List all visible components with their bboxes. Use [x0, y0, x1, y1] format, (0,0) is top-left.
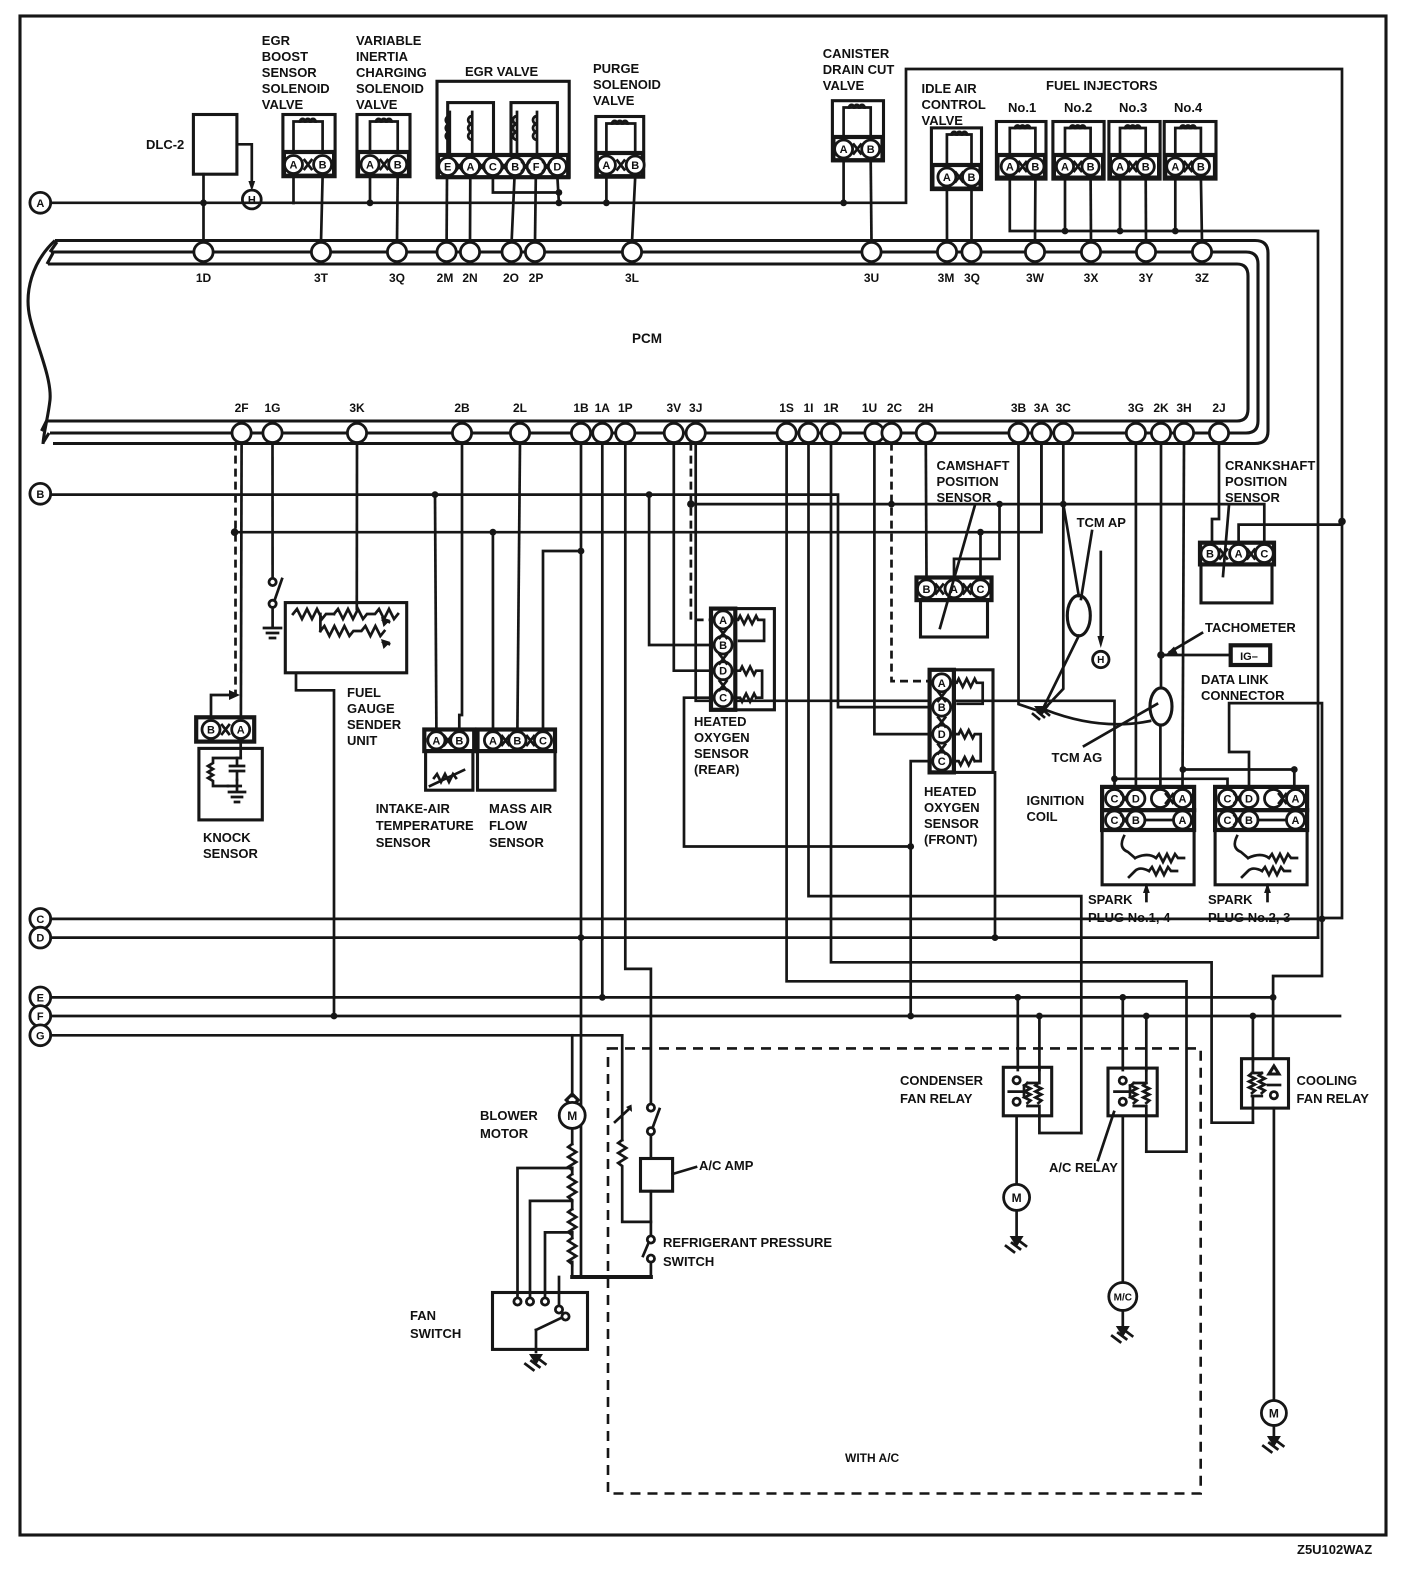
svg-text:A: A — [432, 735, 440, 747]
bus B wire to front oxygen sensor — [51, 491, 930, 707]
mass air flow sensor connector — [478, 730, 556, 752]
svg-text:B: B — [631, 160, 639, 172]
svg-text:2H: 2H — [918, 401, 933, 415]
svg-text:3Z: 3Z — [1195, 271, 1209, 285]
svg-text:B: B — [1197, 162, 1205, 174]
svg-text:FUEL: FUEL — [347, 685, 381, 700]
svg-text:3Q: 3Q — [389, 271, 405, 285]
node G circled letter left edge — [30, 1025, 51, 1046]
svg-text:A: A — [719, 615, 727, 627]
ground below 1G switch — [264, 607, 281, 638]
fan switch box — [493, 1293, 588, 1353]
node A circled letter left edge — [30, 192, 51, 213]
svg-text:FAN RELAY: FAN RELAY — [1297, 1091, 1370, 1106]
IG tachometer terminal box — [1231, 645, 1271, 665]
condenser fan motor M — [1004, 1184, 1030, 1210]
svg-text:M: M — [1269, 1407, 1279, 1421]
svg-text:3T: 3T — [314, 271, 329, 285]
svg-text:A: A — [1116, 162, 1124, 174]
bus C wire — [51, 916, 1326, 923]
svg-text:A: A — [1061, 162, 1069, 174]
purge solenoid valve — [596, 117, 644, 178]
svg-text:(REAR): (REAR) — [694, 762, 740, 777]
canister drain cut valve — [832, 101, 883, 161]
wire fuel gauge output to bus F — [296, 673, 334, 1016]
node F circled letter left edge — [30, 1006, 51, 1027]
svg-text:2O: 2O — [503, 271, 519, 285]
svg-text:CONDENSER: CONDENSER — [900, 1073, 984, 1088]
svg-text:HEATED: HEATED — [694, 714, 746, 729]
svg-text:SPARK: SPARK — [1208, 892, 1253, 907]
FAN SWITCH label — [410, 1308, 461, 1341]
wire EGR D to bus A with junctions — [556, 177, 563, 206]
svg-text:2J: 2J — [1212, 401, 1225, 415]
svg-text:No.3: No.3 — [1119, 100, 1147, 115]
svg-text:A: A — [1292, 794, 1300, 806]
svg-text:D: D — [1245, 794, 1253, 806]
svg-text:2P: 2P — [529, 271, 544, 285]
knock sensor connector — [196, 717, 254, 741]
wire F to AC relay coil — [1145, 1016, 1148, 1070]
svg-text:C: C — [1260, 549, 1268, 561]
wire MAF C joining 1B — [543, 548, 584, 730]
HEATED OXYGEN SENSOR REAR label — [694, 714, 750, 777]
CRANKSHAFT POSITION SENSOR label with leader — [1223, 458, 1315, 576]
svg-text:FUEL INJECTORS: FUEL INJECTORS — [1046, 78, 1158, 93]
svg-text:3H: 3H — [1176, 401, 1191, 415]
ignition coil left body windings — [1102, 830, 1194, 885]
svg-text:A: A — [1235, 549, 1243, 561]
A/C RELAY label with leader — [1049, 1112, 1118, 1175]
svg-text:C: C — [489, 162, 497, 174]
ignition coil right connector row 2 — [1215, 810, 1307, 830]
svg-text:3Y: 3Y — [1139, 271, 1154, 285]
svg-text:2B: 2B — [454, 401, 470, 415]
svg-text:E: E — [444, 162, 451, 174]
KNOCK SENSOR label — [203, 830, 259, 861]
svg-text:B: B — [1245, 815, 1253, 827]
svg-text:1A: 1A — [595, 401, 611, 415]
FUEL GAUGE SENDER UNIT label — [347, 685, 402, 748]
condenser fan relay — [1003, 1067, 1051, 1116]
svg-text:B: B — [938, 702, 946, 714]
heated oxygen sensor rear body with heater and cell — [732, 609, 774, 710]
injector No.1 label — [1008, 100, 1036, 115]
svg-text:2N: 2N — [462, 271, 477, 285]
bus A wire across top and wrap around injectors down right side — [51, 69, 1346, 918]
resistor tap 1 to fan switch — [518, 1168, 573, 1297]
svg-text:C: C — [539, 735, 547, 747]
svg-text:3Q: 3Q — [964, 271, 980, 285]
wire injector No.1 B to pin 3W — [1034, 178, 1037, 242]
wire knock sensor B shield loop — [211, 695, 232, 717]
svg-text:MASS AIR: MASS AIR — [489, 801, 553, 816]
PCM torn left edge — [28, 241, 55, 445]
svg-text:M: M — [1012, 1191, 1022, 1205]
svg-text:VARIABLE: VARIABLE — [356, 33, 422, 48]
SPARK PLUG No.2 3 label — [1208, 892, 1290, 925]
ground below condenser fan motor — [1006, 1210, 1026, 1252]
fuel injector No.2 — [1053, 122, 1104, 180]
svg-text:CAMSHAFT: CAMSHAFT — [937, 458, 1010, 473]
svg-text:IGNITION: IGNITION — [1027, 793, 1085, 808]
svg-text:SENSOR: SENSOR — [1225, 490, 1281, 505]
svg-text:C: C — [1111, 794, 1119, 806]
wire 3C to signal return and TCM ground — [1041, 443, 1063, 712]
wire F to cooling fan relay coil — [1252, 1016, 1255, 1061]
wire 1S staircase to AC relay coil — [787, 443, 1187, 1152]
COOLING FAN RELAY label — [1297, 1073, 1370, 1106]
svg-text:A: A — [840, 144, 848, 156]
CAMSHAFT POSITION SENSOR label with leader — [937, 458, 1010, 628]
EGR valve assembly — [437, 81, 569, 177]
svg-text:PLUG No.1, 4: PLUG No.1, 4 — [1088, 910, 1171, 925]
svg-text:SENSOR: SENSOR — [262, 65, 318, 80]
svg-text:1I: 1I — [803, 401, 813, 415]
ignition coil right connector row 1 — [1215, 787, 1307, 810]
wire injector No.3 A drop — [1119, 178, 1122, 231]
heated oxygen sensor rear connector — [711, 609, 735, 710]
svg-text:TACHOMETER: TACHOMETER — [1205, 620, 1296, 635]
wire 1I staircase to condenser relay coil loop — [809, 443, 1082, 1133]
svg-text:EGR VALVE: EGR VALVE — [465, 64, 539, 79]
svg-text:1D: 1D — [196, 271, 212, 285]
svg-text:VALVE: VALVE — [922, 113, 964, 128]
svg-text:DRAIN CUT: DRAIN CUT — [823, 62, 895, 77]
svg-text:A: A — [1292, 815, 1300, 827]
svg-text:A: A — [489, 735, 497, 747]
arrow from TCM AP area to circled H — [1097, 552, 1104, 648]
wire crankshaft B from 2J — [1212, 443, 1219, 543]
svg-text:3G: 3G — [1128, 401, 1144, 415]
wire 3V to rear oxygen sensor D — [674, 443, 711, 671]
injector No.2 label — [1064, 100, 1092, 115]
svg-text:REFRIGERANT PRESSURE: REFRIGERANT PRESSURE — [663, 1235, 832, 1250]
wire 3H to ignition coil left A with branch to right coil A — [1180, 443, 1298, 787]
ignition coil left connector row 1 — [1102, 787, 1194, 810]
resistor tap 3 to fan switch — [545, 1232, 572, 1297]
svg-text:B: B — [1132, 815, 1140, 827]
svg-text:CHARGING: CHARGING — [356, 65, 427, 80]
wire data link connector loop to right coil D — [1229, 703, 1322, 1059]
svg-text:3W: 3W — [1026, 271, 1045, 285]
svg-text:C: C — [938, 756, 946, 768]
variable inertia charging solenoid valve — [357, 115, 410, 177]
svg-text:WITH A/C: WITH A/C — [845, 1451, 900, 1465]
svg-text:PLUG No.2, 3: PLUG No.2, 3 — [1208, 910, 1290, 925]
wire resistor chain bottom to thick feed line — [571, 1262, 574, 1277]
svg-text:FAN: FAN — [410, 1308, 436, 1323]
svg-text:UNIT: UNIT — [347, 733, 377, 748]
injector No.4 label — [1174, 100, 1203, 115]
PCM bottom connector pins row — [232, 423, 1229, 442]
svg-text:1G: 1G — [264, 401, 280, 415]
svg-text:D: D — [719, 666, 727, 678]
wire 2L to MAF B — [517, 443, 520, 730]
node H circled letter near DLC-2 — [242, 190, 261, 209]
node E circled letter left edge — [30, 987, 51, 1008]
wire refrigerant switch to thick line — [650, 1262, 653, 1277]
wire canister A to bus A — [842, 161, 845, 203]
svg-text:VALVE: VALVE — [262, 97, 304, 112]
wire AC relay coil bottom jog — [1145, 1116, 1148, 1152]
svg-text:2L: 2L — [513, 401, 527, 415]
wire 1U to front oxygen sensor D — [874, 443, 929, 734]
wire rear oxygen sensor B from bus B — [649, 495, 711, 645]
wire 2K to tachometer junction and TCM AG — [1157, 443, 1165, 688]
wire TCM AG to ignition coil blank pin — [1159, 725, 1162, 787]
wire EGR F to pin 2P — [534, 177, 537, 242]
AC amp box — [641, 1159, 673, 1192]
fuel injector No.4 — [1164, 122, 1216, 180]
svg-text:3B: 3B — [1011, 401, 1027, 415]
svg-text:No.2: No.2 — [1064, 100, 1092, 115]
svg-text:GAUGE: GAUGE — [347, 701, 395, 716]
TCM AG label with leader — [1052, 704, 1158, 765]
svg-text:A/C AMP: A/C AMP — [699, 1158, 754, 1173]
svg-text:1U: 1U — [862, 401, 877, 415]
wire injector common A supply rail — [1010, 178, 1318, 938]
BLOWER MOTOR label — [480, 1108, 538, 1141]
wire EGR boost A to bus A — [292, 177, 295, 203]
svg-text:CRANKSHAFT: CRANKSHAFT — [1225, 458, 1315, 473]
idle air control valve — [931, 128, 981, 190]
svg-text:A: A — [1006, 162, 1014, 174]
svg-text:3U: 3U — [864, 271, 879, 285]
idle air control valve label — [922, 81, 986, 128]
DATA LINK CONNECTOR label — [1201, 672, 1285, 703]
spark plug arrow right — [1264, 883, 1271, 901]
svg-text:B: B — [719, 640, 727, 652]
wire 2C shield dashed to front oxygen sensor A — [892, 443, 930, 681]
svg-text:C: C — [1224, 794, 1232, 806]
svg-text:A: A — [366, 160, 374, 172]
wire ground point swoosh to TCM AG — [1046, 710, 1150, 724]
svg-text:PCM: PCM — [632, 331, 662, 346]
svg-text:TEMPERATURE: TEMPERATURE — [376, 818, 474, 833]
svg-text:TCM AP: TCM AP — [1077, 515, 1127, 530]
svg-text:COOLING: COOLING — [1297, 1073, 1358, 1088]
INTAKE-AIR TEMPERATURE SENSOR label — [376, 801, 474, 850]
wire EGR A to pin 2N — [469, 177, 472, 242]
DLC-2 connector box — [146, 115, 237, 175]
svg-text:A: A — [1171, 162, 1179, 174]
wire injector No.4 A drop — [1174, 178, 1177, 231]
fuel injector No.3 — [1109, 122, 1160, 180]
ground point hatched under TCM AP — [1033, 706, 1049, 719]
wire 3A down to shield line corner — [1040, 443, 1043, 533]
svg-text:B: B — [867, 144, 875, 156]
svg-text:POSITION: POSITION — [1225, 474, 1287, 489]
svg-text:VALVE: VALVE — [356, 97, 398, 112]
svg-text:A: A — [36, 198, 44, 210]
wire 3J solid to ignition coil C line — [696, 443, 1118, 787]
svg-text:TCM AG: TCM AG — [1052, 750, 1103, 765]
svg-text:1B: 1B — [573, 401, 589, 415]
injector No.3 label — [1119, 100, 1147, 115]
svg-text:SWITCH: SWITCH — [663, 1254, 714, 1269]
svg-text:D: D — [1132, 794, 1140, 806]
svg-text:B: B — [1142, 162, 1150, 174]
svg-text:IDLE AIR: IDLE AIR — [922, 81, 978, 96]
wire VICS A to bus A — [369, 177, 372, 203]
wire canister B to pin 3U — [869, 161, 872, 242]
crankshaft position sensor body — [1201, 564, 1272, 603]
svg-text:3J: 3J — [689, 401, 702, 415]
CONDENSER FAN RELAY label — [900, 1073, 984, 1106]
svg-text:POSITION: POSITION — [937, 474, 999, 489]
wire IACV B to pin 3Q — [970, 190, 973, 242]
wire VICS B to pin 3Q — [396, 177, 399, 242]
svg-text:B: B — [455, 735, 463, 747]
blower resistor chain R1 — [568, 1128, 576, 1170]
wire condenser relay coil bottom loop — [1039, 1116, 1081, 1133]
wire E to condenser fan relay contact — [1016, 997, 1019, 1070]
cooling fan relay — [1242, 1059, 1289, 1108]
TCM AP label with leader — [1077, 515, 1127, 599]
wire AC relay contact to compressor clutch — [1121, 1116, 1124, 1283]
wire front oxygen heater return to bus D — [992, 772, 999, 941]
svg-text:SENSOR: SENSOR — [937, 490, 993, 505]
wire fan switch pin 4 up to thick line — [558, 1277, 561, 1305]
svg-text:D: D — [938, 729, 946, 741]
svg-text:SENSOR: SENSOR — [694, 746, 750, 761]
drawing code Z5U102WAZ — [1297, 1542, 1372, 1557]
wire 1G to fan switch circuit switch — [271, 443, 274, 578]
svg-text:3V: 3V — [666, 401, 681, 415]
svg-text:DLC-2: DLC-2 — [146, 137, 184, 152]
svg-text:INTAKE-AIR: INTAKE-AIR — [376, 801, 451, 816]
svg-text:1R: 1R — [823, 401, 839, 415]
svg-text:HEATED: HEATED — [924, 784, 976, 799]
svg-text:BOOST: BOOST — [262, 49, 308, 64]
wire 2H to camshaft position sensor B — [924, 443, 927, 578]
svg-text:SENSOR: SENSOR — [203, 846, 259, 861]
svg-text:SOLENOID: SOLENOID — [593, 77, 661, 92]
svg-text:3K: 3K — [349, 401, 365, 415]
crankshaft position sensor connector — [1200, 543, 1274, 565]
cooling fan motor M — [1261, 1401, 1286, 1426]
wire ignition coil C link left to right — [1115, 779, 1228, 787]
wire DLC-2 down to pin 1D — [202, 174, 205, 242]
EGR VALVE label — [465, 64, 539, 79]
resistor tap 2 to fan switch — [530, 1201, 572, 1297]
svg-text:KNOCK: KNOCK — [203, 830, 251, 845]
svg-text:B: B — [1206, 549, 1214, 561]
blower resistor chain R3 — [568, 1201, 576, 1235]
wire shield common line H533 — [235, 443, 1042, 536]
svg-text:CANISTER: CANISTER — [823, 46, 890, 61]
wire injector No.4 B to pin 3Z — [1201, 178, 1202, 242]
SPARK PLUG No.1 4 label — [1088, 892, 1171, 925]
svg-text:F: F — [533, 162, 540, 174]
wire 3B to TCM ground point — [1019, 443, 1042, 712]
blower resistor chain R4 — [568, 1232, 576, 1264]
fuel gauge sender unit box — [285, 603, 406, 673]
ground below cooling fan motor — [1263, 1426, 1283, 1453]
svg-text:SPARK: SPARK — [1088, 892, 1133, 907]
svg-text:VALVE: VALVE — [823, 78, 865, 93]
wire injector No.2 B to pin 3X — [1089, 178, 1092, 242]
svg-text:SENSOR: SENSOR — [489, 835, 545, 850]
wire 1P to AC amp branch — [625, 443, 651, 1104]
EGR boost sensor solenoid valve label — [262, 33, 330, 112]
TCM AG ellipse — [1150, 688, 1172, 725]
svg-text:Z5U102WAZ: Z5U102WAZ — [1297, 1542, 1372, 1557]
wire IACV A to pin 3M — [946, 190, 949, 242]
svg-text:2K: 2K — [1153, 401, 1169, 415]
camshaft position sensor connector — [917, 578, 992, 601]
wire cooling relay contact to fan motor — [1273, 1108, 1276, 1400]
spark plug arrow left — [1143, 883, 1150, 901]
fuel injector No.1 — [996, 122, 1046, 180]
svg-text:C: C — [1224, 815, 1232, 827]
svg-text:B: B — [923, 584, 931, 596]
TCM AP ellipse — [1067, 595, 1090, 635]
svg-text:F: F — [37, 1011, 44, 1023]
wire EGR boost B to pin 3T — [321, 177, 323, 242]
WITH A/C label — [845, 1451, 900, 1465]
svg-text:C: C — [719, 693, 727, 705]
svg-text:DATA LINK: DATA LINK — [1201, 672, 1269, 687]
svg-text:2M: 2M — [437, 271, 454, 285]
svg-text:INERTIA: INERTIA — [356, 49, 409, 64]
svg-text:CONNECTOR: CONNECTOR — [1201, 688, 1285, 703]
svg-text:A: A — [943, 172, 951, 184]
ground below compressor clutch — [1112, 1311, 1132, 1343]
svg-text:3C: 3C — [1056, 401, 1072, 415]
svg-text:A: A — [237, 725, 245, 737]
wire E to AC relay contact — [1121, 997, 1124, 1070]
svg-text:2F: 2F — [235, 401, 249, 415]
svg-text:B: B — [513, 735, 521, 747]
svg-text:B: B — [394, 160, 402, 172]
svg-text:C: C — [1111, 815, 1119, 827]
node D circled letter left edge — [30, 927, 51, 948]
wire crankshaft A to bus A return — [1239, 525, 1342, 543]
PCM top pin labels 1D 3T 3Q 2M 2N 2O 2P 3L 3U 3M 3Q 3W 3X 3Y 3Z — [196, 271, 1209, 285]
ignition coil right body windings — [1215, 830, 1307, 885]
canister drain cut valve label — [823, 46, 895, 93]
node H circled letter near TCM AP — [1093, 651, 1109, 667]
svg-text:3M: 3M — [938, 271, 955, 285]
knock sensor body — [199, 742, 262, 820]
wire 3J shield dashed to rear oxygen sensor A — [687, 443, 711, 620]
REFRIGERANT PRESSURE SWITCH label — [663, 1235, 832, 1269]
wire MAF A to shield line — [492, 532, 495, 729]
wire tachometer junction to IG box — [1161, 654, 1231, 657]
svg-text:H: H — [1097, 655, 1104, 666]
svg-text:3A: 3A — [1034, 401, 1050, 415]
wire TCM AP ellipse bottom to ground point — [1041, 636, 1078, 712]
thick wire fan switch to refrigerant pressure switch — [572, 1275, 651, 1279]
svg-text:CONTROL: CONTROL — [922, 97, 986, 112]
svg-text:D: D — [36, 933, 44, 945]
svg-text:B: B — [1031, 162, 1039, 174]
svg-text:SENSOR: SENSOR — [924, 816, 980, 831]
refrigerant pressure switch — [643, 1236, 655, 1262]
intake air temperature sensor body thermistor — [426, 751, 473, 790]
wire 2F solid to knock sensor A — [240, 443, 243, 718]
wire purge A to bus A — [605, 177, 608, 203]
svg-text:No.1: No.1 — [1008, 100, 1036, 115]
svg-text:A: A — [1179, 815, 1187, 827]
IGNITION COIL label — [1027, 793, 1085, 824]
wire 3G to ignition coil left D — [1135, 443, 1138, 787]
svg-text:OXYGEN: OXYGEN — [924, 800, 980, 815]
bus G wire to blower branch — [51, 1034, 623, 1037]
mass air flow sensor body — [478, 751, 556, 790]
